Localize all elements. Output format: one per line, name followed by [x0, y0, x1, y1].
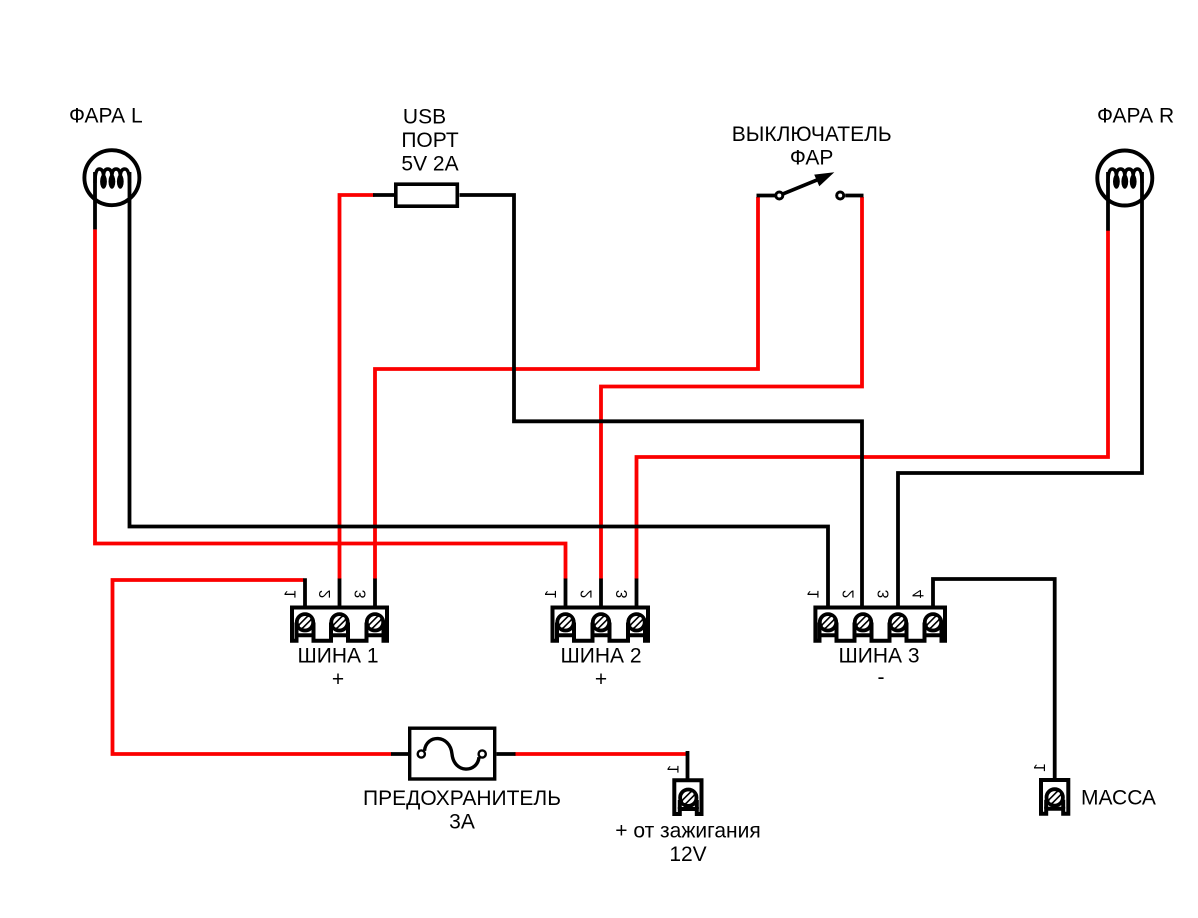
screw 4 of ШИНА 3	[925, 614, 941, 630]
screw 2 of ШИНА 2	[593, 614, 609, 630]
wire black: switch left stub	[757, 194, 776, 198]
wire black: USB port left stub	[373, 193, 394, 197]
wire black: ШИНА3 pin 4 to МАССА terminal	[933, 579, 1055, 780]
wire red: switch right leg to ШИНА2 pin 2	[601, 197, 862, 579]
screw 3 of ШИНА 3	[890, 614, 906, 630]
wire black: lamp R left lead upper part	[1106, 172, 1110, 231]
wire red: lamp L plus lead to ШИНА2 pin 1	[95, 229, 566, 579]
wire black: lamp R right lead to ШИНА3 pin 3	[898, 172, 1142, 608]
wire black: ШИНА1 pin stubs	[305, 578, 375, 608]
svg-text:1: 1	[283, 590, 300, 599]
svg-text:1: 1	[666, 765, 683, 774]
svg-text:ФАР: ФАР	[790, 147, 834, 170]
svg-text:USB: USB	[403, 106, 446, 129]
screw 2 of ШИНА 1	[331, 614, 347, 630]
wire red: fuse right to ignition terminal	[515, 752, 688, 756]
wire black: lamp L right lead to ШИНА3 pin 1	[130, 172, 829, 608]
wire black: ШИНА2 pin stubs	[566, 579, 637, 609]
svg-text:1: 1	[1032, 763, 1049, 772]
USB port 5V 2A	[396, 184, 458, 206]
wire black: ignition terminal lead	[686, 751, 690, 780]
wire red: USB port left to ШИНА1 pin 2	[340, 195, 375, 579]
svg-text:1: 1	[543, 590, 560, 599]
wire black: fuse left stub	[391, 752, 408, 756]
svg-text:ШИНА 3: ШИНА 3	[838, 645, 919, 668]
svg-text:3: 3	[614, 590, 631, 599]
screw of ignition terminal	[680, 790, 696, 806]
wire red: switch left leg to ШИНА1 pin 3	[375, 197, 758, 579]
ignition terminal block	[674, 780, 701, 814]
wire red: fuse left to ШИНА1 pin 1	[113, 580, 392, 754]
wire black: switch right stub	[845, 194, 863, 198]
svg-text:2: 2	[841, 590, 858, 599]
screw 3 of ШИНА 1	[367, 614, 383, 630]
wire black: lamp L left lead upper part	[93, 172, 97, 229]
svg-text:+ от зажигания: + от зажигания	[615, 820, 760, 843]
lamp ФАРА R	[1097, 151, 1152, 206]
screw 1 of ШИНА 2	[557, 614, 573, 630]
svg-text:ФАРА R: ФАРА R	[1097, 105, 1174, 128]
svg-text:ШИНА 1: ШИНА 1	[297, 645, 378, 668]
svg-text:ПОРТ: ПОРТ	[401, 129, 458, 152]
svg-text:+: +	[595, 668, 607, 691]
svg-text:2: 2	[579, 590, 596, 599]
svg-text:3: 3	[353, 590, 370, 599]
svg-text:2: 2	[317, 590, 334, 599]
svg-text:МАССА: МАССА	[1081, 787, 1156, 810]
lamp ФАРА L	[84, 150, 139, 205]
svg-text:ПРЕДОХРАНИТЕЛЬ: ПРЕДОХРАНИТЕЛЬ	[363, 787, 561, 810]
svg-text:ВЫКЛЮЧАТЕЛЬ: ВЫКЛЮЧАТЕЛЬ	[732, 123, 892, 146]
fuse ПРЕДОХРАНИТЕЛЬ 3А	[410, 728, 495, 779]
svg-text:1: 1	[806, 590, 823, 599]
ground terminal block МАССА	[1041, 780, 1068, 814]
svg-text:ФАРА L: ФАРА L	[69, 105, 143, 128]
wire red: lamp R plus lead to ШИНА2 pin 3	[637, 231, 1109, 580]
svg-text:4: 4	[911, 590, 928, 599]
wire black: fuse right stub	[497, 752, 516, 756]
terminal block ШИНА 3	[815, 608, 945, 641]
svg-text:3: 3	[876, 590, 893, 599]
switch ВЫКЛЮЧАТЕЛЬ ФАР	[776, 172, 844, 199]
svg-text:5V 2A: 5V 2A	[401, 153, 458, 176]
svg-text:12V: 12V	[669, 843, 706, 866]
screw 2 of ШИНА 3	[855, 614, 871, 630]
svg-text:-: -	[878, 666, 885, 689]
svg-text:ШИНА 2: ШИНА 2	[560, 645, 641, 668]
screw 3 of ШИНА 2	[628, 614, 644, 630]
svg-text:+: +	[332, 668, 344, 691]
svg-text:3А: 3А	[449, 811, 475, 834]
terminal block ШИНА 1	[292, 608, 387, 641]
screw 1 of ШИНА 3	[820, 614, 836, 630]
terminal block ШИНА 2	[553, 608, 649, 641]
wire black: USB port right to ШИНА3 pin 2	[460, 195, 863, 608]
screw 1 of ШИНА 1	[297, 614, 313, 630]
screw of ground terminal	[1047, 789, 1063, 805]
